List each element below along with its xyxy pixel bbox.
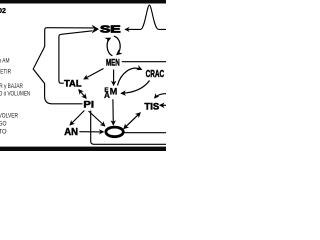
svg-text:A: A [104,91,110,100]
cycle arrows between SE and MEN [107,38,112,56]
double arrow O and TIS [124,113,140,129]
svg-text:M: M [110,87,118,97]
svg-text:O2: O2 [0,8,6,15]
big solid arrowhead into SE [92,25,99,34]
svg-text:TO: TO [0,128,7,135]
svg-text:TIS: TIS [144,101,159,112]
svg-text:o AM: o AM [0,57,10,64]
svg-text:TAL: TAL [64,78,82,89]
svg-text:ETIR: ETIR [0,68,11,75]
arrow MEN to TAL [84,69,104,80]
arrow PI to O [89,111,105,126]
arrow from spike waveform into SE [125,28,133,30]
svg-text:GO: GO [0,121,7,128]
curved arrow from right edge into TIS top [155,94,166,98]
svg-text:PI: PI [83,100,94,110]
node O ellipse [106,127,123,137]
bottom black bar [0,147,166,151]
arrow MEN down to EM [113,70,115,86]
svg-text:MEN: MEN [106,58,120,69]
double arrow TAL and PI [79,90,86,99]
arrow EM down to O [112,99,114,125]
arrow AN to O [79,131,103,133]
svg-text:SE: SE [100,24,121,35]
wire: MEN to right edge [122,61,166,63]
svg-text:AN: AN [64,127,78,138]
wire: band bottom horizontal into PI [52,103,83,105]
wire: outer band line from PI around left chevron to big arrow into SE [33,28,93,104]
top black bar [0,0,166,4]
svg-text:VOLVER: VOLVER [0,113,18,120]
arrow from right edge into TIS [160,104,166,106]
svg-text:CRAC: CRAC [146,69,165,80]
svg-text:R y BAJAR: R y BAJAR [0,83,23,90]
cycle arrows between EM and CRAC [118,68,142,85]
wire: PI down and right along bottom [91,111,166,145]
wire: inner band line from TAL up and right into big arrow [59,31,93,83]
wire: O to right edge [125,132,167,134]
svg-text:O ó VOLUMEN: O ó VOLUMEN [0,90,30,97]
spike waveform top right [133,5,166,29]
arrow PI to AN [70,111,84,126]
